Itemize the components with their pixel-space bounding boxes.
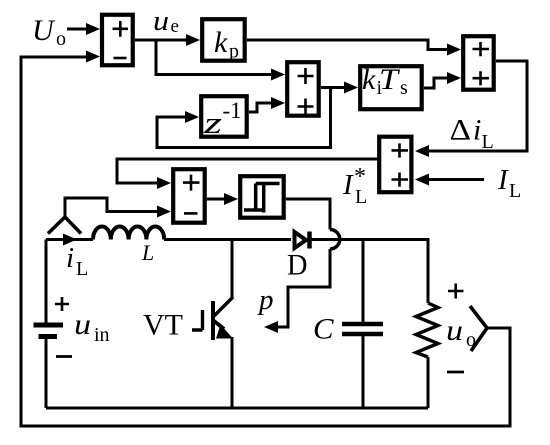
svg-text:p: p bbox=[257, 284, 274, 316]
arrow into sum5 plus bbox=[157, 177, 171, 189]
svg-text:z: z bbox=[203, 105, 222, 140]
arrow into kp bbox=[186, 34, 200, 46]
svg-text:D: D bbox=[287, 249, 308, 282]
svg-text:u: u bbox=[153, 6, 169, 37]
summer U2 (integrator sum) bbox=[287, 62, 319, 115]
wire battery bottom bbox=[45, 339, 48, 408]
svg-text:o: o bbox=[466, 329, 476, 351]
wire z-1 out to sum2 bbox=[249, 103, 275, 112]
svg-text:C: C bbox=[313, 313, 335, 346]
inductor L bbox=[93, 227, 164, 240]
svg-text:k: k bbox=[362, 63, 376, 96]
wire IL input bbox=[425, 178, 484, 181]
arrow into sum3 top bbox=[447, 44, 461, 56]
wire hysteresis out to p bbox=[286, 199, 330, 230]
wire sum3 out to sum4 bbox=[425, 61, 527, 151]
arrow into sum2 bottom bbox=[271, 97, 285, 109]
wire p drive bbox=[274, 249, 330, 327]
wire rail diode to resistor bbox=[311, 240, 428, 304]
svg-text:Δ: Δ bbox=[450, 114, 472, 147]
wire sum4 out to sum5 bbox=[117, 159, 378, 183]
transistor VT (IGBT) bbox=[192, 297, 233, 408]
wire left feedback loop bbox=[21, 57, 510, 426]
wire VT collector bbox=[231, 240, 234, 300]
wire kiTs to sum3 bbox=[424, 78, 451, 88]
svg-text:L: L bbox=[482, 131, 494, 153]
wire bottom rail bbox=[46, 407, 428, 410]
arrow into sum4 bottom (IL) bbox=[415, 174, 429, 186]
label output plus bbox=[448, 284, 464, 299]
wire main rail left bbox=[46, 238, 93, 241]
svg-text:o: o bbox=[56, 28, 66, 50]
wire z-1 feedback loop bbox=[157, 88, 331, 148]
summer U4 (IL* sum) bbox=[379, 137, 411, 193]
summer U1 (Uo comparison) bbox=[102, 15, 133, 66]
arrowheads bbox=[63, 23, 461, 333]
svg-text:I: I bbox=[342, 169, 354, 201]
wire current-probe to sum5 bbox=[65, 198, 161, 217]
VT emitter arrowhead bbox=[216, 325, 233, 339]
wire resistor bottom bbox=[427, 357, 430, 408]
wire battery top bbox=[45, 240, 48, 324]
wire cap bottom bbox=[362, 336, 365, 408]
arrow into sum4 top (delta iL) bbox=[415, 145, 429, 157]
arrow into sum5 minus bbox=[157, 206, 171, 218]
svg-text:I: I bbox=[497, 164, 509, 196]
arrow iL on rail bbox=[63, 234, 77, 246]
svg-text:VT: VT bbox=[143, 309, 183, 342]
resistor load bbox=[416, 303, 438, 357]
svg-text:L: L bbox=[141, 240, 154, 265]
wire cap top bbox=[362, 240, 365, 323]
battery uin bbox=[34, 325, 64, 337]
summer U3 (feedforward sum) bbox=[463, 36, 494, 89]
svg-text:u: u bbox=[74, 308, 91, 341]
wire hop arc bbox=[330, 230, 340, 250]
svg-text:i: i bbox=[66, 242, 74, 274]
summer U5 (current comparison) bbox=[173, 169, 205, 223]
svg-text:L: L bbox=[76, 258, 88, 280]
svg-text:L: L bbox=[509, 180, 521, 202]
svg-text:k: k bbox=[214, 26, 228, 59]
voltage probe (uo sensor) bbox=[470, 306, 487, 351]
arrow into hysteresis bbox=[224, 193, 238, 205]
svg-text:in: in bbox=[94, 324, 110, 346]
wire sum1 to kp bbox=[135, 39, 190, 42]
label battery plus bbox=[55, 297, 69, 311]
wire sum5 to hysteresis bbox=[207, 198, 228, 201]
wire kp to sum3 bbox=[247, 40, 451, 50]
arrow into kiTs bbox=[344, 82, 358, 94]
svg-text:T: T bbox=[379, 63, 401, 96]
block z-1 bbox=[201, 96, 247, 137]
block kp bbox=[202, 19, 245, 61]
svg-text:s: s bbox=[400, 77, 408, 99]
wire sum2 to kiTs bbox=[321, 86, 348, 89]
label battery minus bbox=[56, 355, 72, 358]
arrow into sum3 bottom bbox=[447, 72, 461, 84]
svg-text:i: i bbox=[473, 114, 481, 147]
svg-text:-1: -1 bbox=[223, 98, 242, 123]
arrow into sum1 minus bbox=[86, 51, 100, 63]
svg-text:u: u bbox=[446, 314, 463, 347]
hysteresis comparator bbox=[240, 176, 284, 218]
arrow into sum1 plus bbox=[86, 23, 100, 35]
svg-text:e: e bbox=[171, 16, 179, 37]
label output minus bbox=[447, 371, 464, 374]
wire ue branch to sum2 bbox=[156, 40, 275, 75]
wire rail inductor to diode bbox=[164, 238, 291, 241]
arrow p drive bbox=[264, 321, 278, 333]
wire Uo input bbox=[67, 28, 88, 31]
block kiTs bbox=[360, 66, 422, 109]
arrow into sum2 top bbox=[271, 69, 285, 81]
svg-text:p: p bbox=[229, 41, 239, 63]
svg-text:*: * bbox=[354, 164, 366, 190]
svg-text:U: U bbox=[32, 14, 56, 47]
diode D bbox=[295, 232, 310, 249]
capacitor C bbox=[342, 324, 383, 334]
current probe (iL sensor) bbox=[48, 217, 81, 234]
arrow into z-1 bbox=[185, 111, 199, 123]
